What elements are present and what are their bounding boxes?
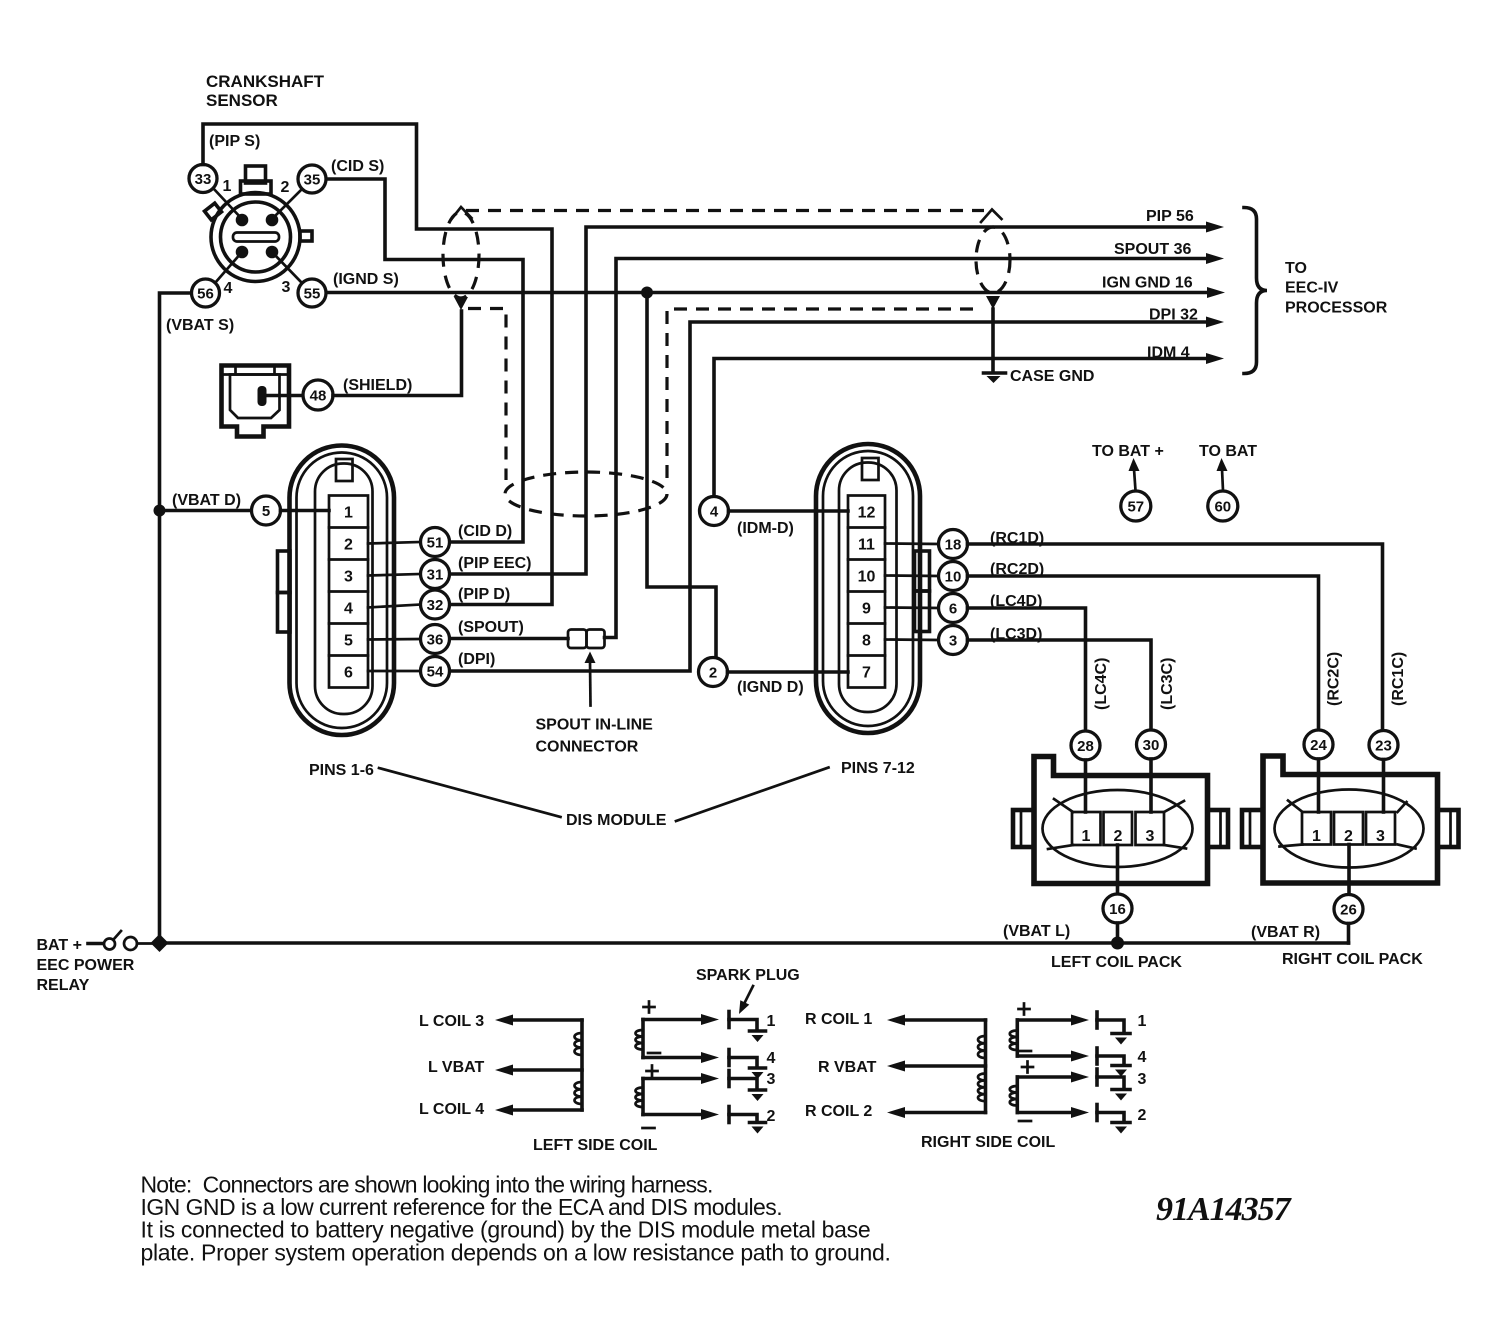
svg-text:31: 31 [427,567,444,584]
spark plug R3 [1017,1069,1146,1101]
svg-text:1: 1 [767,1013,776,1030]
svg-text:55: 55 [304,286,321,303]
wire CID S [327,179,523,542]
wire circle4 to pin12 [729,509,849,513]
shield arrowhead right [986,296,1000,309]
svg-text:57: 57 [1127,499,1144,516]
terminal circle 16 [1103,894,1132,923]
svg-text:4: 4 [224,280,233,297]
case ground wire [991,309,995,371]
label R COIL 2 with arrow [805,1103,986,1120]
svg-text:(SPOUT): (SPOUT) [458,619,524,636]
svg-text:1: 1 [223,178,232,195]
svg-text:EEC POWER: EEC POWER [37,957,135,974]
shield dashed drain left [468,309,506,481]
svg-text:(LC4C): (LC4C) [1093,658,1110,710]
svg-text:9: 9 [862,601,871,618]
svg-text:26: 26 [1340,902,1357,919]
svg-text:6: 6 [949,601,957,618]
svg-text:(PIP S): (PIP S) [209,133,260,150]
svg-text:LEFT COIL PACK: LEFT COIL PACK [1051,954,1182,971]
note text [141,1172,891,1266]
terminal circle 5 [252,496,281,525]
svg-text:R COIL 1: R COIL 1 [805,1011,872,1028]
shield connector housing [222,366,290,437]
shield dashed top line [466,209,984,212]
terminal circle 56 [192,252,243,307]
svg-text:EEC-IV: EEC-IV [1285,280,1339,297]
wire 26 to bus [1347,924,1351,944]
wire pin8 to 3 [885,638,939,641]
svg-text:33: 33 [195,171,212,188]
junction VBAT D [154,505,166,517]
arrowhead SPOUT 36 [1206,253,1224,264]
label CRANKSHAFT SENSOR [206,72,325,110]
shield arrowhead left [454,297,468,310]
terminal circle 24 [1304,730,1333,759]
svg-text:2: 2 [1344,828,1353,845]
brace to EEC-IV [1244,208,1267,374]
terminal circle 2 [699,658,728,687]
wire IGND S / IGN GND to processor [327,291,1207,295]
left pack pin boxes 1 2 3 [1072,812,1164,845]
svg-text:48: 48 [310,388,327,405]
terminal circle 33 [189,165,242,220]
DIS left pin boxes 1-6 [329,496,368,688]
svg-text:3: 3 [1138,1071,1147,1088]
wire pin5 to 36 [368,638,421,641]
left secondary polarity marks [643,1002,661,1129]
svg-text:PINS 1-6: PINS 1-6 [309,762,374,779]
label R VBAT with arrow [818,1059,986,1076]
svg-text:1: 1 [1312,828,1321,845]
junction VBAT L [1111,937,1124,950]
svg-text:R VBAT: R VBAT [818,1059,877,1076]
svg-text:1: 1 [344,505,353,522]
VBAT bus wire [165,941,1349,945]
svg-text:SENSOR: SENSOR [206,91,278,110]
wire 30 into left pack pin3 [1149,759,1153,812]
crankshaft sensor connector body [204,166,312,282]
svg-text:10: 10 [945,569,962,586]
label SPOUT IN-LINE CONNECTOR [536,717,654,756]
svg-text:(VBAT R): (VBAT R) [1251,924,1320,941]
wire IGND D branch [647,293,716,658]
terminal circle 54 [421,657,450,686]
svg-text:32: 32 [427,597,444,614]
wire 23 into right pack pin3 [1382,760,1386,813]
terminal circle 6 [939,594,968,623]
svg-text:3: 3 [1376,828,1385,845]
svg-text:IGN GND 16: IGN GND 16 [1102,275,1193,292]
svg-text:7: 7 [862,665,871,682]
wire PIP S [203,124,552,605]
wire VBAT S [160,293,192,943]
svg-text:6: 6 [344,665,353,682]
terminal circle 32 [421,590,450,619]
leader DIS MODULE to PINS 7-12 [676,768,829,822]
svg-text:(VBAT D): (VBAT D) [172,492,241,509]
svg-text:4: 4 [1138,1049,1147,1066]
DIS connector pins 7-12 shell [816,444,930,733]
spark plug R2 [1017,1105,1146,1134]
svg-text:(RC1C): (RC1C) [1390,652,1407,706]
junction diamond BAT [151,934,169,952]
spark plug R4 [1017,1048,1146,1077]
svg-text:L VBAT: L VBAT [428,1059,485,1076]
svg-text:23: 23 [1375,738,1392,755]
svg-text:8: 8 [862,633,871,650]
svg-text:3: 3 [344,569,353,586]
terminal circle 57 with arrow [1121,458,1151,521]
terminal circle 30 [1137,730,1166,759]
wire SPOUT connector to circle 36 [450,637,568,641]
svg-text:2: 2 [1114,828,1123,845]
arrowhead DPI 32 [1206,317,1224,328]
svg-text:DPI 32: DPI 32 [1149,307,1198,324]
terminal circle 55 [272,252,326,307]
terminal circle 51 [421,528,450,557]
right coil pack body [1242,756,1459,883]
wire right pack pin2 to 26 [1347,845,1351,895]
svg-text:2: 2 [344,537,353,554]
SPOUT in-line connector pointer arrow [585,652,596,706]
svg-text:4: 4 [710,504,719,521]
wire IDM [714,359,1207,497]
wire PIP EEC [450,227,1207,574]
wire pin11 to 18 [885,542,939,545]
svg-text:10: 10 [858,569,876,586]
svg-text:CONNECTOR: CONNECTOR [536,739,639,756]
svg-text:(CID S): (CID S) [331,158,384,175]
svg-text:60: 60 [1214,499,1231,516]
svg-text:3: 3 [949,633,957,650]
wire 16 to bus junction [1116,923,1120,943]
label TO EEC-IV PROCESSOR [1285,260,1388,317]
svg-text:plate. Proper system operation: plate. Proper system operation depends o… [141,1240,891,1266]
svg-text:28: 28 [1077,738,1094,755]
wire 24 into right pack pin1 [1317,759,1321,812]
svg-text:(PIP D): (PIP D) [458,586,510,603]
svg-text:PINS 7-12: PINS 7-12 [841,760,915,777]
svg-text:54: 54 [427,664,444,681]
svg-text:35: 35 [304,172,321,189]
svg-text:1: 1 [1138,1013,1147,1030]
svg-text:(DPI): (DPI) [458,651,495,668]
svg-text:(PIP EEC): (PIP EEC) [458,555,532,572]
svg-text:5: 5 [344,633,353,650]
svg-text:24: 24 [1310,737,1327,754]
left coil secondary winding [636,1020,644,1115]
svg-text:L COIL 4: L COIL 4 [419,1101,484,1118]
terminal circle 35 [272,165,326,219]
svg-text:(LC3C): (LC3C) [1159,658,1176,710]
svg-text:(CID D): (CID D) [458,523,512,540]
arrowhead IDM 4 [1206,353,1224,364]
shield chevron right [981,210,1002,223]
svg-text:3: 3 [282,279,291,296]
case ground symbol [984,373,1006,383]
svg-text:SPOUT IN-LINE: SPOUT IN-LINE [536,717,654,734]
svg-text:5: 5 [262,503,270,520]
svg-text:RIGHT SIDE COIL: RIGHT SIDE COIL [921,1134,1055,1151]
terminal circle 48 [266,380,333,410]
terminal circle 31 [421,560,450,589]
svg-text:51: 51 [427,535,444,552]
svg-text:CASE GND: CASE GND [1010,368,1094,385]
spark plug pointer arrow [739,986,753,1014]
terminal circle 28 [1071,731,1100,760]
svg-text:LEFT SIDE COIL: LEFT SIDE COIL [533,1137,658,1154]
svg-text:TO BAT: TO BAT [1199,443,1257,460]
arrowhead PIP 56 [1206,222,1224,233]
DIS connector pins 1-6 shell [278,446,395,736]
wire shield drain to 48 [333,311,462,396]
svg-text:91A14357: 91A14357 [1156,1191,1293,1228]
svg-text:56: 56 [197,286,214,303]
wire circle5 to pin1 [281,509,330,513]
leader PINS 1-6 to DIS MODULE [379,768,561,817]
wire SPOUT [605,259,1208,638]
shield ellipse left [443,212,479,298]
wire pin4 to 32 [368,605,421,608]
svg-text:(IGND D): (IGND D) [737,679,804,696]
right coil primary winding [978,1020,986,1113]
wire LC3D [968,640,1152,730]
left coil primary winding [575,1020,583,1110]
right pack pin boxes 1 2 3 [1302,812,1395,845]
label L VBAT with arrow [428,1059,582,1076]
wire 28 into left pack pin1 [1084,760,1088,812]
svg-text:TO: TO [1285,260,1307,277]
svg-text:16: 16 [1109,901,1126,918]
svg-text:2: 2 [767,1108,776,1125]
svg-text:2: 2 [709,665,717,682]
EEC power relay switch [88,931,152,950]
terminal circle 26 [1334,895,1363,924]
svg-text:DIS MODULE: DIS MODULE [566,812,667,829]
shield chevron left [450,207,472,221]
svg-text:PIP 56: PIP 56 [1146,208,1194,225]
wire pin2 to 51 [368,542,421,544]
spark plug L4 [643,1050,776,1080]
svg-text:11: 11 [858,537,875,554]
svg-text:3: 3 [767,1071,776,1088]
terminal circle 60 with arrow [1208,458,1238,521]
svg-text:PROCESSOR: PROCESSOR [1285,300,1388,317]
DIS right pin boxes 12-7 [848,496,885,688]
label L COIL 3 with arrow [419,1013,582,1030]
wire pin3 to 31 [368,574,421,576]
svg-text:3: 3 [1146,828,1155,845]
svg-text:(RC2C): (RC2C) [1326,652,1343,706]
terminal circle 4 [700,497,729,526]
svg-text:TO BAT +: TO BAT + [1092,443,1164,460]
svg-text:1: 1 [1082,828,1091,845]
terminal circle 23 [1369,731,1398,760]
svg-text:12: 12 [858,505,876,522]
shield bundle ellipse [505,472,667,516]
svg-text:BAT +: BAT + [37,937,82,954]
svg-text:36: 36 [427,632,444,649]
terminal circle 3 [939,626,968,655]
left coil pack body [1013,757,1228,884]
svg-text:2: 2 [1138,1107,1147,1124]
wire pin9 to 6 [885,606,939,609]
svg-text:(VBAT S): (VBAT S) [166,317,234,334]
shield dashed drain right [667,309,981,478]
spark plug L2 [643,1107,776,1134]
wire DPI [450,322,1207,671]
svg-text:2: 2 [281,179,290,196]
wire RC2D [968,576,1319,730]
terminal circle 36 [421,625,450,654]
wire VBAT D [160,509,252,513]
terminal circle 18 [939,530,968,559]
svg-text:30: 30 [1143,737,1160,754]
svg-text:(IDM-D): (IDM-D) [737,520,794,537]
wire circle2 to pin7 [728,670,849,674]
sensor pin number labels [223,178,291,297]
wire pin10 to 10 [885,574,939,577]
svg-text:RELAY: RELAY [37,977,90,994]
spark plug L1 [643,1012,776,1043]
svg-text:4: 4 [344,601,353,618]
shield ellipse right [976,227,1010,293]
spark plug R1 [1017,1012,1146,1045]
wire LC4D [968,608,1086,731]
svg-text:(IGND S): (IGND S) [333,271,399,288]
spark plug L3 [643,1071,776,1102]
svg-text:(VBAT L): (VBAT L) [1003,923,1070,940]
svg-text:CRANKSHAFT: CRANKSHAFT [206,72,325,91]
svg-text:4: 4 [767,1050,776,1067]
wire left pack pin2 to 16 [1116,845,1120,894]
wire RC1D [968,544,1383,731]
svg-text:(SHIELD): (SHIELD) [343,377,412,394]
svg-text:SPOUT 36: SPOUT 36 [1114,241,1191,258]
label L COIL 4 with arrow [419,1101,582,1118]
label R COIL 1 with arrow [805,1011,986,1028]
svg-text:SPARK PLUG: SPARK PLUG [696,967,800,984]
svg-text:R COIL 2: R COIL 2 [805,1103,872,1120]
arrowhead IGN GND 16 [1207,287,1225,298]
svg-text:L COIL 3: L COIL 3 [419,1013,484,1030]
wire pin6 to 54 [368,670,421,673]
svg-text:RIGHT COIL PACK: RIGHT COIL PACK [1282,951,1423,968]
right coil secondary winding [1010,1020,1018,1113]
svg-text:IDM 4: IDM 4 [1147,345,1190,362]
terminal circle 10 [939,562,968,591]
right secondary polarity marks [1019,1004,1034,1122]
SPOUT in-line connector [568,630,605,649]
svg-text:18: 18 [945,537,962,554]
junction IGND [641,287,653,299]
